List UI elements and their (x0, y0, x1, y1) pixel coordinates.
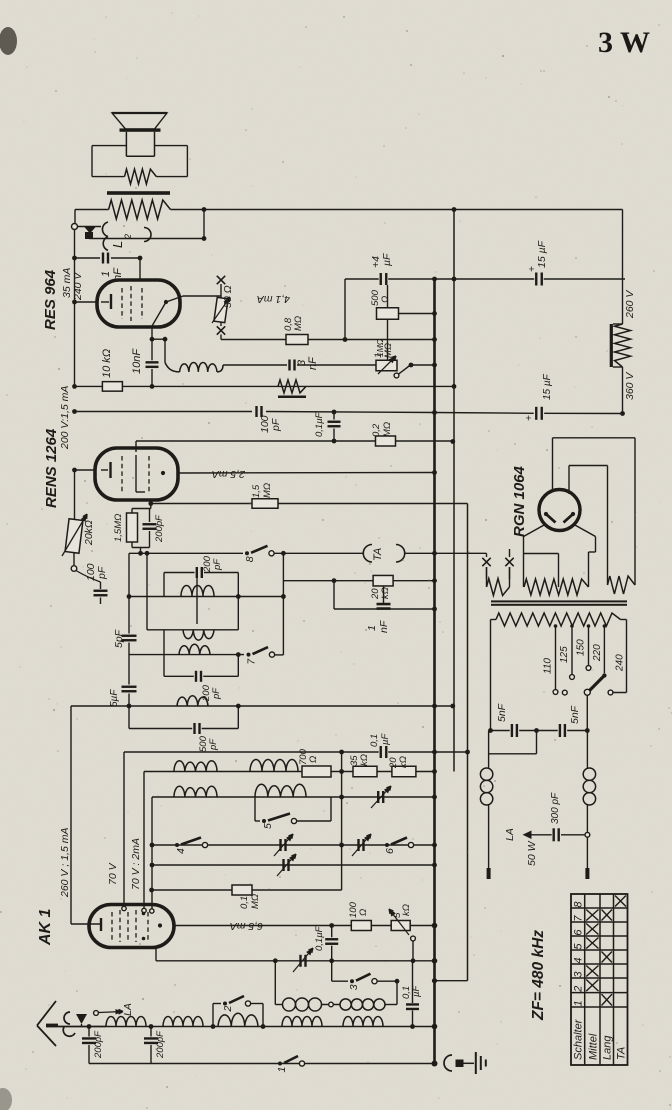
svg-text:8: 8 (573, 901, 585, 908)
svg-text:pF: pF (96, 566, 108, 580)
svg-text:5nF: 5nF (496, 703, 508, 722)
svg-text:LA: LA (504, 828, 516, 841)
svg-text:5µF: 5µF (109, 689, 120, 707)
svg-text:Mittel: Mittel (588, 1033, 600, 1060)
svg-text:2: 2 (573, 986, 585, 993)
svg-text:RGN 1064: RGN 1064 (511, 465, 528, 537)
svg-text:0,1: 0,1 (239, 896, 250, 909)
svg-text:70 V: 70 V (107, 862, 119, 885)
svg-text:200pF: 200pF (155, 1030, 166, 1059)
svg-text:+: + (524, 415, 535, 421)
svg-text:1: 1 (573, 1000, 585, 1006)
svg-text:10 kΩ: 10 kΩ (101, 349, 113, 378)
svg-text:5: 5 (262, 823, 274, 829)
svg-text:125: 125 (559, 646, 570, 663)
svg-text:6,5 mA: 6,5 mA (230, 920, 263, 932)
svg-text:kΩ: kΩ (398, 756, 409, 768)
svg-text:1: 1 (276, 1067, 288, 1073)
svg-text:1,5: 1,5 (251, 484, 262, 498)
svg-text:RENS 1264: RENS 1264 (43, 428, 60, 508)
svg-text:ZF= 480 kHz: ZF= 480 kHz (530, 930, 547, 1021)
svg-text:200 V:1,5 mA: 200 V:1,5 mA (59, 386, 71, 450)
svg-text:pF: pF (212, 558, 223, 571)
svg-text:MΩ: MΩ (293, 316, 304, 331)
svg-text:8: 8 (244, 556, 256, 562)
svg-text:AK 1: AK 1 (37, 908, 54, 946)
svg-text:6: 6 (573, 929, 585, 936)
svg-text:µF: µF (380, 733, 391, 745)
svg-text:MΩ: MΩ (262, 483, 273, 498)
svg-text:1: 1 (100, 271, 112, 277)
svg-text:260 V ; 1,5 mA: 260 V ; 1,5 mA (59, 828, 71, 898)
svg-text:Ω: Ω (308, 756, 319, 763)
svg-text:4,1 mA: 4,1 mA (257, 293, 290, 305)
svg-text:200pF: 200pF (154, 514, 165, 543)
svg-text:240 V: 240 V (72, 272, 84, 301)
svg-text:pF: pF (208, 738, 219, 751)
svg-text:Lang: Lang (602, 1035, 614, 1060)
svg-text:240: 240 (615, 654, 626, 672)
svg-text:0,2: 0,2 (371, 423, 382, 437)
svg-text:2,5 mA: 2,5 mA (212, 468, 246, 480)
svg-text:LA: LA (122, 1003, 134, 1016)
svg-text:kΩ: kΩ (401, 904, 412, 916)
svg-text:200pF: 200pF (93, 1030, 104, 1059)
svg-text:260 V: 260 V (624, 290, 636, 319)
svg-text:7: 7 (573, 915, 585, 922)
svg-text:MΩ: MΩ (382, 422, 393, 437)
svg-text:4: 4 (175, 848, 187, 854)
svg-text:5nF: 5nF (569, 705, 581, 724)
svg-text:1: 1 (366, 625, 378, 631)
svg-text:RES 964: RES 964 (42, 269, 59, 330)
svg-text:pF: pF (211, 687, 222, 700)
svg-text:6: 6 (384, 848, 396, 854)
svg-text:L: L (110, 241, 125, 248)
svg-text:150: 150 (576, 639, 587, 656)
svg-text:MΩ: MΩ (250, 894, 261, 909)
svg-text:110: 110 (543, 658, 554, 674)
svg-text:Ω: Ω (358, 909, 369, 916)
svg-text:TA: TA (372, 548, 384, 561)
svg-text:Schalter: Schalter (573, 1018, 585, 1060)
svg-text:50 Ω: 50 Ω (222, 285, 234, 308)
svg-text:0,1: 0,1 (369, 734, 380, 747)
svg-text:360 V: 360 V (624, 372, 636, 400)
svg-text:0,1µF: 0,1µF (314, 925, 325, 951)
svg-text:kΩ: kΩ (380, 587, 391, 599)
svg-text:3 W: 3 W (598, 26, 650, 59)
svg-text:20kΩ: 20kΩ (83, 520, 95, 546)
svg-text:TA: TA (616, 1047, 628, 1060)
svg-text:5pF: 5pF (113, 629, 125, 648)
svg-text:50 W: 50 W (526, 840, 538, 866)
svg-text:4: 4 (573, 957, 585, 963)
svg-text:1,5MΩ: 1,5MΩ (113, 514, 124, 542)
svg-text:3: 3 (573, 971, 585, 978)
svg-text:1MΩ: 1MΩ (375, 338, 385, 357)
svg-text:µF: µF (411, 985, 422, 997)
svg-text:10nF: 10nF (131, 348, 143, 374)
svg-text:5: 5 (573, 943, 585, 950)
svg-text:300 pF: 300 pF (550, 792, 561, 824)
svg-text:70 V : 2mA: 70 V : 2mA (130, 838, 142, 890)
svg-text:Ω: Ω (380, 296, 391, 303)
svg-text:220: 220 (592, 644, 603, 662)
svg-text:3: 3 (348, 984, 360, 990)
svg-text:15 µF: 15 µF (542, 373, 553, 400)
svg-text:µF: µF (381, 253, 393, 266)
svg-text:pF: pF (270, 418, 282, 432)
svg-text:0,1µF: 0,1µF (314, 411, 325, 437)
svg-text:2: 2 (222, 1006, 234, 1013)
svg-text:kΩ: kΩ (359, 754, 370, 766)
svg-text:15 µF: 15 µF (536, 240, 548, 268)
svg-text:nF: nF (307, 356, 319, 370)
svg-text:nF: nF (378, 620, 390, 633)
